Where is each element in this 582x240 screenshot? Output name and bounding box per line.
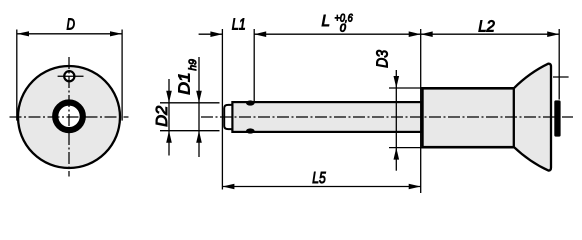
D3 arrow bottom bbox=[394, 148, 400, 160]
D1 dimension line bbox=[198, 57, 200, 157]
L arrow right bbox=[409, 31, 421, 37]
dimension D arrow right bbox=[110, 31, 122, 36]
head / cylinder junction line bbox=[513, 88, 515, 147]
D1 arrow top bbox=[196, 91, 202, 103]
svg-text:D2: D2 bbox=[154, 106, 171, 127]
push button bbox=[554, 100, 560, 136]
ball hole horizontal crosshair bbox=[58, 75, 84, 77]
front view body circle bbox=[18, 66, 120, 168]
D3 arrow top bbox=[394, 76, 400, 88]
D3 dimension line bbox=[395, 70, 397, 171]
tip / shaft junction line bbox=[231, 103, 233, 131]
svg-text:D: D bbox=[67, 16, 76, 33]
dimension D extension line right bbox=[121, 30, 123, 121]
L5 dimension line bbox=[222, 186, 420, 188]
front view vertical centerline bbox=[68, 57, 70, 177]
dimension D line bbox=[17, 33, 122, 35]
ball bottom bbox=[246, 128, 255, 133]
front view ball hole bbox=[64, 71, 74, 81]
L2 arrow right bbox=[547, 31, 559, 37]
svg-text:L5: L5 bbox=[312, 170, 326, 187]
L1 dimension line bbox=[199, 33, 223, 35]
ball top bbox=[246, 100, 255, 105]
L5 arrow left bbox=[222, 184, 234, 190]
L2 dimension line bbox=[421, 33, 560, 35]
dimension D arrow left bbox=[17, 31, 29, 36]
svg-text:L: L bbox=[322, 13, 331, 30]
svg-text:D1: D1 bbox=[177, 72, 194, 95]
D1 D2 bottom extension line bbox=[160, 130, 220, 132]
pin shaft D1 bbox=[232, 102, 422, 132]
svg-text:L2: L2 bbox=[478, 18, 495, 35]
L2 arrow left bbox=[421, 31, 433, 37]
L1 extension line at ball bbox=[253, 29, 255, 103]
svg-text:h9: h9 bbox=[187, 59, 199, 71]
D2 arrow bottom bbox=[166, 131, 172, 143]
D1 arrow bottom bbox=[196, 131, 202, 143]
extension line at button face bbox=[558, 29, 560, 100]
L dimension line bbox=[254, 33, 421, 35]
L1 extension line at tip bbox=[221, 29, 223, 190]
D2 arrow top bbox=[166, 91, 172, 103]
L5 arrow right bbox=[409, 184, 421, 190]
svg-text:L1: L1 bbox=[232, 17, 246, 34]
head rim edge line bbox=[553, 76, 569, 78]
L1 arrow left bbox=[210, 31, 222, 37]
D1 D2 top extension line bbox=[160, 102, 220, 104]
dimension D extension line left bbox=[16, 30, 18, 121]
svg-text:0: 0 bbox=[340, 22, 347, 34]
L1 arrow right / L arrow left bbox=[254, 31, 266, 37]
D3 bottom extension line bbox=[389, 147, 427, 149]
D3 top extension line bbox=[389, 87, 423, 89]
grip cylinder bbox=[422, 88, 514, 147]
svg-text:D3: D3 bbox=[374, 50, 391, 68]
mushroom head bbox=[514, 64, 551, 171]
pin tip D2 bbox=[224, 105, 232, 129]
front view center hole ring bbox=[55, 103, 83, 131]
side view centerline bbox=[201, 116, 573, 118]
D2 dimension line bbox=[168, 79, 170, 156]
front view horizontal centerline bbox=[10, 116, 129, 118]
extension line at grip face bbox=[420, 29, 422, 193]
